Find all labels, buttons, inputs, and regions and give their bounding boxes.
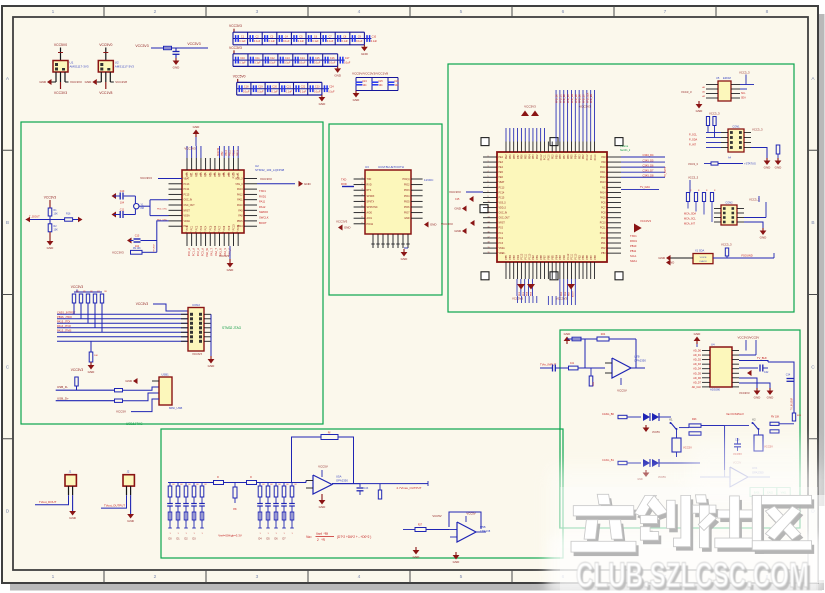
svg-text:PD0_OSC: PD0_OSC <box>157 209 168 211</box>
svg-text:K1: K1 <box>669 418 673 422</box>
svg-text:3: 3 <box>256 574 259 580</box>
svg-text:PB8: PB8 <box>587 254 589 259</box>
svg-text:PA12: PA12 <box>259 205 266 209</box>
svg-text:VCC5V: VCC5V <box>617 389 627 393</box>
svg-text:FPD_D7: FPD_D7 <box>583 93 585 103</box>
svg-text:(D7*2 +D6*2 +...+D0*2 ): (D7*2 +D6*2 +...+D0*2 ) <box>337 535 371 539</box>
svg-text:PE2: PE2 <box>533 254 535 259</box>
svg-text:PB3: PB3 <box>533 154 535 159</box>
svg-text:PD1: PD1 <box>191 172 194 177</box>
svg-text:⚲come: ⚲come <box>620 144 629 148</box>
svg-text:C343_D8: C343_D8 <box>643 173 655 177</box>
svg-text:VCC3V3: VCC3V3 <box>449 190 461 194</box>
svg-text:AD_D7: AD_D7 <box>693 381 701 384</box>
svg-text:2.7Vmax_OUTPUT: 2.7Vmax_OUTPUT <box>397 486 422 490</box>
svg-text:11VDC: 11VDC <box>424 178 434 182</box>
svg-text:5: 5 <box>460 9 463 15</box>
svg-text:8: 8 <box>361 217 362 219</box>
svg-text:PIO(1): PIO(1) <box>402 178 409 181</box>
svg-text:C343_D5: C343_D5 <box>643 158 655 162</box>
svg-text:FPD_D3: FPD_D3 <box>568 93 570 103</box>
svg-text:1: 1 <box>488 156 489 158</box>
svg-text:GND: GND <box>69 516 77 520</box>
svg-text:9: 9 <box>361 222 362 224</box>
svg-text:AD9280: AD9280 <box>710 388 721 392</box>
svg-text:0.1uF: 0.1uF <box>271 90 278 93</box>
svg-text:VCC3V3: VCC3V3 <box>192 353 202 356</box>
svg-text:C23: C23 <box>315 86 320 89</box>
svg-text:SDA: SDA <box>741 97 746 100</box>
svg-text:PB6: PB6 <box>595 254 597 259</box>
svg-text:PIO2: PIO2 <box>404 184 410 187</box>
svg-text:MINI_USB: MINI_USB <box>169 406 182 410</box>
svg-text:PE2: PE2 <box>499 157 504 159</box>
svg-text:NRST: NRST <box>184 210 191 212</box>
svg-text:RXD: RXD <box>341 182 347 186</box>
svg-text:GND: GND <box>401 257 409 261</box>
svg-text:11: 11 <box>488 206 490 208</box>
svg-text:C343_D6: C343_D6 <box>643 163 655 167</box>
svg-text:PC8: PC8 <box>601 213 606 215</box>
svg-text:AD_CLK: AD_CLK <box>692 386 702 389</box>
svg-text:CLUB.SZLCSC.COM: CLUB.SZLCSC.COM <box>576 556 809 593</box>
svg-text:5: 5 <box>488 176 489 178</box>
svg-text:PC12: PC12 <box>587 154 589 160</box>
svg-text:0.1uF: 0.1uF <box>284 62 291 65</box>
svg-text:PE2: PE2 <box>579 254 581 259</box>
svg-text:D: D <box>6 509 10 515</box>
svg-text:PC1: PC1 <box>191 225 194 230</box>
svg-text:0.1uF: 0.1uF <box>314 90 321 93</box>
svg-text:R24: R24 <box>601 333 606 336</box>
svg-text:PB3: PB3 <box>560 254 562 259</box>
svg-text:PC9: PC9 <box>601 218 606 220</box>
svg-text:PC14: PC14 <box>184 189 190 191</box>
svg-text:C42: C42 <box>764 371 769 374</box>
svg-text:PC12: PC12 <box>600 233 606 235</box>
svg-text:PD3: PD3 <box>200 172 203 177</box>
svg-text:P_INT: P_INT <box>689 144 697 147</box>
svg-text:C343_D7: C343_D7 <box>643 168 655 172</box>
svg-text:PD2: PD2 <box>195 172 198 177</box>
svg-text:2: 2 <box>154 9 157 15</box>
svg-text:PD2: PD2 <box>537 154 539 159</box>
svg-text:SCL: SCL <box>741 93 746 95</box>
svg-text:0.1uF: 0.1uF <box>328 90 335 93</box>
svg-text:PA12: PA12 <box>237 193 243 196</box>
svg-text:PC0: PC0 <box>186 225 189 230</box>
svg-text:PC11: PC11 <box>572 253 574 259</box>
svg-text:PC10: PC10 <box>595 154 597 160</box>
svg-text:14: 14 <box>488 221 490 223</box>
svg-text:PD0: PD0 <box>186 172 189 177</box>
svg-text:C24: C24 <box>329 86 334 89</box>
svg-text:PC13: PC13 <box>499 187 505 189</box>
svg-text:VCC3_3: VCC3_3 <box>688 162 698 166</box>
svg-text:PC10: PC10 <box>529 253 531 259</box>
svg-text:19: 19 <box>488 247 490 249</box>
svg-text:C22: C22 <box>301 86 306 89</box>
svg-text:VSS_3: VSS_3 <box>235 184 243 186</box>
svg-text:GND: GND <box>430 223 436 227</box>
svg-text:PA15_JTDI: PA15_JTDI <box>57 319 70 323</box>
svg-text:VCC3V3: VCC3V3 <box>44 196 57 200</box>
svg-text:PC3: PC3 <box>200 225 203 230</box>
svg-text:PD6: PD6 <box>214 172 217 177</box>
svg-text:PIO5: PIO5 <box>404 200 410 203</box>
svg-text:TVin_INPUT: TVin_INPUT <box>540 363 556 367</box>
svg-text:FPD_D4: FPD_D4 <box>572 93 574 103</box>
svg-text:PC9: PC9 <box>228 225 231 230</box>
svg-text:Vref=IOHigh=3.3V: Vref=IOHigh=3.3V <box>218 534 242 538</box>
svg-text:PA10: PA10 <box>237 204 243 207</box>
svg-text:PA11: PA11 <box>600 171 606 174</box>
svg-text:GND: GND <box>125 379 133 383</box>
svg-text:4: 4 <box>358 574 361 580</box>
svg-text:PB7: PB7 <box>518 154 520 159</box>
svg-text:10K: 10K <box>54 213 59 216</box>
svg-text:SPI/TX: SPI/TX <box>367 200 375 203</box>
svg-text:PC10: PC10 <box>600 223 606 225</box>
svg-text:GND: GND <box>760 236 768 240</box>
svg-text:VCC3V3: VCC3V3 <box>187 42 200 46</box>
svg-text:GND: GND <box>775 166 783 170</box>
svg-text:VCC3V3: VCC3V3 <box>579 105 591 109</box>
svg-text:4: 4 <box>361 194 362 196</box>
svg-text:C17: C17 <box>345 57 350 60</box>
svg-text:VSS_5: VSS_5 <box>499 202 507 204</box>
svg-text:GND: GND <box>658 256 666 260</box>
svg-text:20: 20 <box>488 252 490 254</box>
svg-text:TV_OUT1: TV_OUT1 <box>665 166 667 177</box>
svg-text:SPI/SYNC: SPI/SYNC <box>367 206 378 209</box>
svg-text:B: B <box>6 220 9 226</box>
svg-text:PC11: PC11 <box>545 154 547 160</box>
svg-text:VCC3_3: VCC3_3 <box>709 112 720 116</box>
svg-text:21: 21 <box>228 232 230 234</box>
svg-text:R16: R16 <box>66 213 71 216</box>
svg-text:STM32 JTAG: STM32 JTAG <box>222 326 242 330</box>
svg-text:C26: C26 <box>394 81 399 83</box>
svg-text:PB10: PB10 <box>225 149 228 156</box>
svg-text:AD_D1: AD_D1 <box>693 354 701 357</box>
svg-text:USB_D+: USB_D+ <box>57 396 69 400</box>
svg-text:PIO3: PIO3 <box>404 189 410 192</box>
svg-text:R27: R27 <box>418 525 423 527</box>
svg-text:USB1: USB1 <box>161 373 169 377</box>
svg-text:GND: GND <box>193 125 201 129</box>
svg-text:PC10: PC10 <box>576 253 578 259</box>
svg-text:NRST: NRST <box>499 223 506 225</box>
svg-text:6: 6 <box>488 181 489 183</box>
svg-text:0.1uF: 0.1uF <box>371 40 378 43</box>
svg-text:VCC3V3: VCC3V3 <box>336 220 348 224</box>
svg-text:VCC3V3: VCC3V3 <box>229 46 242 50</box>
svg-text:GND: GND <box>334 74 342 78</box>
svg-text:VCC3_3: VCC3_3 <box>688 176 699 180</box>
svg-text:FSOUND: FSOUND <box>741 254 752 258</box>
svg-text:PC11: PC11 <box>600 228 606 230</box>
svg-text:SDA1: SDA1 <box>630 259 637 263</box>
svg-text:FPD_D0: FPD_D0 <box>557 93 559 103</box>
svg-text:C343_D4: C343_D4 <box>643 153 655 157</box>
svg-text:PC13: PC13 <box>184 184 190 186</box>
svg-text:PB6: PB6 <box>522 154 524 159</box>
svg-text:PC6: PC6 <box>601 202 606 204</box>
svg-text:PA11: PA11 <box>259 200 266 204</box>
svg-text:C11: C11 <box>255 57 260 60</box>
svg-text:0.1uF: 0.1uF <box>268 40 275 43</box>
svg-text:BOOT: BOOT <box>259 221 267 225</box>
svg-text:GND: GND <box>453 560 461 564</box>
svg-text:GND: GND <box>47 246 55 250</box>
svg-text:0.1uF: 0.1uF <box>327 40 334 43</box>
svg-text:PC7: PC7 <box>601 208 606 210</box>
svg-text:PC10: PC10 <box>549 154 551 160</box>
svg-text:PB4: PB4 <box>576 154 578 159</box>
svg-text:PC11: PC11 <box>591 154 593 160</box>
svg-text:GND: GND <box>39 80 47 84</box>
svg-text:22: 22 <box>233 232 235 234</box>
svg-text:CON1: CON1 <box>732 125 740 129</box>
svg-text:13: 13 <box>488 216 490 218</box>
svg-text:Rf: Rf <box>328 431 331 435</box>
svg-text:C: C <box>6 364 10 370</box>
svg-text:OSC_IN: OSC_IN <box>184 200 193 202</box>
svg-text:PIO11: PIO11 <box>367 223 374 226</box>
svg-text:13: 13 <box>191 232 193 234</box>
svg-text:PC7: PC7 <box>219 225 222 230</box>
svg-text:PE3: PE3 <box>499 162 504 164</box>
svg-text:GND: GND <box>319 102 327 106</box>
svg-text:PB8: PB8 <box>514 154 516 159</box>
svg-text:PC2_A: PC2_A <box>196 248 200 256</box>
svg-text:18: 18 <box>488 242 490 244</box>
svg-text:C10: C10 <box>372 35 377 38</box>
svg-text:R9 10K: R9 10K <box>133 248 141 250</box>
svg-text:PD1: PD1 <box>601 243 606 245</box>
svg-text:PC10: PC10 <box>233 224 236 231</box>
svg-text:8M: 8M <box>141 207 144 210</box>
svg-text:VCC1V8: VCC1V8 <box>115 80 127 84</box>
svg-text:VCC3V3: VCC3V3 <box>739 391 750 395</box>
svg-text:OSC_OUT: OSC_OUT <box>184 205 196 207</box>
svg-text:PD2: PD2 <box>583 154 585 159</box>
svg-text:PC11: PC11 <box>237 224 240 230</box>
svg-text:VCC3_3: VCC3_3 <box>749 198 760 202</box>
svg-text:PB5: PB5 <box>506 254 508 259</box>
svg-text:CHECK: CHECK <box>699 261 707 263</box>
svg-text:GND: GND <box>173 66 181 70</box>
svg-text:VDD_5: VDD_5 <box>499 208 507 210</box>
svg-text:C19: C19 <box>258 86 263 89</box>
svg-text:PB11: PB11 <box>229 150 232 156</box>
svg-text:PB5: PB5 <box>552 254 554 259</box>
svg-text:PC1_A: PC1_A <box>192 248 196 256</box>
svg-text:Net·R1_2: Net·R1_2 <box>620 149 631 152</box>
svg-text:VREF-: VREF- <box>499 253 506 255</box>
svg-text:PB9: PB9 <box>556 154 558 159</box>
svg-text:SPI/RX: SPI/RX <box>367 195 375 198</box>
svg-text:15: 15 <box>488 227 490 229</box>
svg-text:18: 18 <box>214 232 216 234</box>
svg-text:0.1uF: 0.1uF <box>286 90 293 93</box>
svg-text:AMS1117-3V3: AMS1117-3V3 <box>115 65 134 69</box>
svg-text:1: 1 <box>52 574 55 580</box>
svg-text:0.1uF: 0.1uF <box>283 40 290 43</box>
svg-text:GND: GND <box>208 364 216 368</box>
svg-text:SWDIO: SWDIO <box>259 210 268 214</box>
svg-text:GND: GND <box>88 370 96 374</box>
svg-text:0.1uF: 0.1uF <box>254 40 261 43</box>
svg-text:FPD_D6: FPD_D6 <box>580 93 582 103</box>
svg-text:VCC5V: VCC5V <box>652 431 660 434</box>
svg-text:VCC5V0: VCC5V0 <box>54 43 67 47</box>
svg-text:GND: GND <box>754 396 762 400</box>
svg-text:PB6: PB6 <box>549 254 551 259</box>
svg-text:C21: C21 <box>287 86 292 89</box>
svg-text:FPD_EN: FPD_EN <box>591 94 593 103</box>
svg-text:PA0_W: PA0_W <box>205 247 209 256</box>
svg-text:GND: GND <box>413 555 421 559</box>
svg-text:PB3: PB3 <box>514 254 516 259</box>
svg-text:VCC3_3: VCC3_3 <box>681 90 692 94</box>
svg-text:PIO7: PIO7 <box>404 212 410 215</box>
svg-text:RTS: RTS <box>367 189 372 192</box>
svg-text:0.1uF: 0.1uF <box>329 62 336 65</box>
svg-text:0.1uF: 0.1uF <box>356 40 363 43</box>
svg-text:SCL1: SCL1 <box>630 254 637 258</box>
svg-text:BOOT0: BOOT0 <box>217 147 220 156</box>
svg-text:TVout_OUTPUT: TVout_OUTPUT <box>104 503 125 507</box>
svg-text:GND: GND <box>304 182 312 186</box>
svg-text:PB9: PB9 <box>583 254 585 259</box>
svg-text:VCC3V3: VCC3V3 <box>54 91 67 95</box>
svg-text:R23: R23 <box>692 418 697 421</box>
svg-text:PE5: PE5 <box>499 172 504 174</box>
svg-text:0.1uF: 0.1uF <box>254 62 261 65</box>
svg-text:GND: GND <box>361 52 369 56</box>
svg-text:PA9: PA9 <box>601 161 606 164</box>
svg-text:U4: U4 <box>711 343 715 347</box>
svg-text:P_SDA: P_SDA <box>689 139 698 142</box>
svg-text:VCC5V0: VCC5V0 <box>233 74 246 78</box>
svg-text:PA1_T: PA1_T <box>210 248 214 256</box>
svg-text:C24: C24 <box>362 81 367 83</box>
svg-text:GND: GND <box>696 109 704 113</box>
svg-text:5: 5 <box>460 574 463 580</box>
svg-text:VDDA: VDDA <box>184 220 191 223</box>
svg-text:C13: C13 <box>135 235 140 238</box>
svg-text:Va=: Va= <box>306 535 312 539</box>
svg-text:VCC5V: VCC5V <box>116 410 126 414</box>
svg-text:C20: C20 <box>272 86 277 89</box>
svg-text:PC14: PC14 <box>499 192 505 194</box>
svg-text:C34: C34 <box>786 374 791 377</box>
svg-text:PA15: PA15 <box>600 196 606 199</box>
svg-text:PA11: PA11 <box>237 199 243 202</box>
svg-text:PB11: PB11 <box>630 249 637 253</box>
svg-text:3: 3 <box>488 166 489 168</box>
svg-text:VCC5V/VCC3V3/VCC1V8: VCC5V/VCC3V3/VCC1V8 <box>352 72 388 76</box>
svg-text:VCC3V3: VCC3V3 <box>524 105 536 109</box>
svg-text:GND: GND <box>454 207 462 211</box>
svg-text:PC8: PC8 <box>223 225 226 230</box>
svg-text:PC12: PC12 <box>522 253 524 259</box>
svg-text:C10: C10 <box>240 57 245 60</box>
svg-text:VCC3V3: VCC3V3 <box>184 147 196 151</box>
svg-text:PD2: PD2 <box>601 248 606 250</box>
svg-text:NC: NC <box>602 187 606 189</box>
svg-text:K2: K2 <box>752 418 756 422</box>
svg-text:CASG_B1: CASG_B1 <box>602 458 615 462</box>
svg-text:GND: GND <box>85 80 93 84</box>
svg-text:PC5: PC5 <box>209 225 212 230</box>
svg-text:C25: C25 <box>378 81 383 83</box>
svg-text:0.1uF: 0.1uF <box>314 62 321 65</box>
svg-text:0.1uF: 0.1uF <box>341 40 348 43</box>
svg-text:PD10: PD10 <box>233 172 236 179</box>
svg-text:VSSA: VSSA <box>184 215 191 218</box>
svg-text:PC0_A: PC0_A <box>187 248 191 256</box>
svg-text:+STATUS: +STATUS <box>744 162 756 166</box>
svg-text:C15: C15 <box>455 198 460 201</box>
svg-text:14: 14 <box>195 232 197 234</box>
svg-text:EROM: EROM <box>723 76 731 80</box>
svg-text:5: 5 <box>361 200 362 202</box>
svg-text:PB7: PB7 <box>591 254 593 259</box>
svg-text:PC12: PC12 <box>541 154 543 160</box>
svg-text:2: 2 <box>154 574 157 580</box>
svg-text:12: 12 <box>488 211 490 213</box>
svg-text:PC2: PC2 <box>195 225 198 230</box>
svg-text:VCC3V3: VCC3V3 <box>229 24 242 28</box>
svg-text:VOICE: VOICE <box>700 257 707 259</box>
svg-text:PA8: PA8 <box>238 215 243 218</box>
svg-text:T_DOUT: T_DOUT <box>29 215 40 219</box>
svg-text:3: 3 <box>361 189 362 191</box>
svg-text:PB15: PB15 <box>237 221 243 223</box>
svg-text:PB7: PB7 <box>545 254 547 259</box>
svg-text:8: 8 <box>766 9 769 15</box>
svg-text:0.1uF: 0.1uF <box>298 40 305 43</box>
svg-text:17: 17 <box>209 232 211 234</box>
svg-text:PB9: PB9 <box>510 154 512 159</box>
svg-text:PC6: PC6 <box>214 225 217 230</box>
svg-text:0.1uF: 0.1uF <box>243 90 250 93</box>
svg-text:OSC_OUT: OSC_OUT <box>499 218 511 220</box>
svg-text:PA13: PA13 <box>600 181 606 184</box>
svg-text:VCC3V3: VCC3V3 <box>135 44 148 48</box>
svg-text:Va=Vi=625mV: Va=Vi=625mV <box>726 412 744 416</box>
svg-text:VCC3V3: VCC3V3 <box>556 297 567 301</box>
svg-text:GND: GND <box>767 396 775 400</box>
svg-text:PD4: PD4 <box>205 172 208 177</box>
svg-text:PB4: PB4 <box>510 254 512 259</box>
svg-text:GND: GND <box>353 98 361 102</box>
svg-text:BOOT: BOOT <box>573 290 575 297</box>
svg-text:2: 2 <box>488 161 489 163</box>
svg-text:PE2: PE2 <box>552 154 554 159</box>
svg-text:B: B <box>811 220 814 226</box>
svg-text:GND: GND <box>764 166 772 170</box>
svg-text:C14: C14 <box>300 57 305 60</box>
svg-text:0.1uF: 0.1uF <box>300 90 307 93</box>
svg-text:PE2: PE2 <box>506 154 508 159</box>
svg-text:3: 3 <box>256 9 259 15</box>
svg-text:TXD1: TXD1 <box>259 189 266 193</box>
svg-text:PC4: PC4 <box>205 225 208 230</box>
